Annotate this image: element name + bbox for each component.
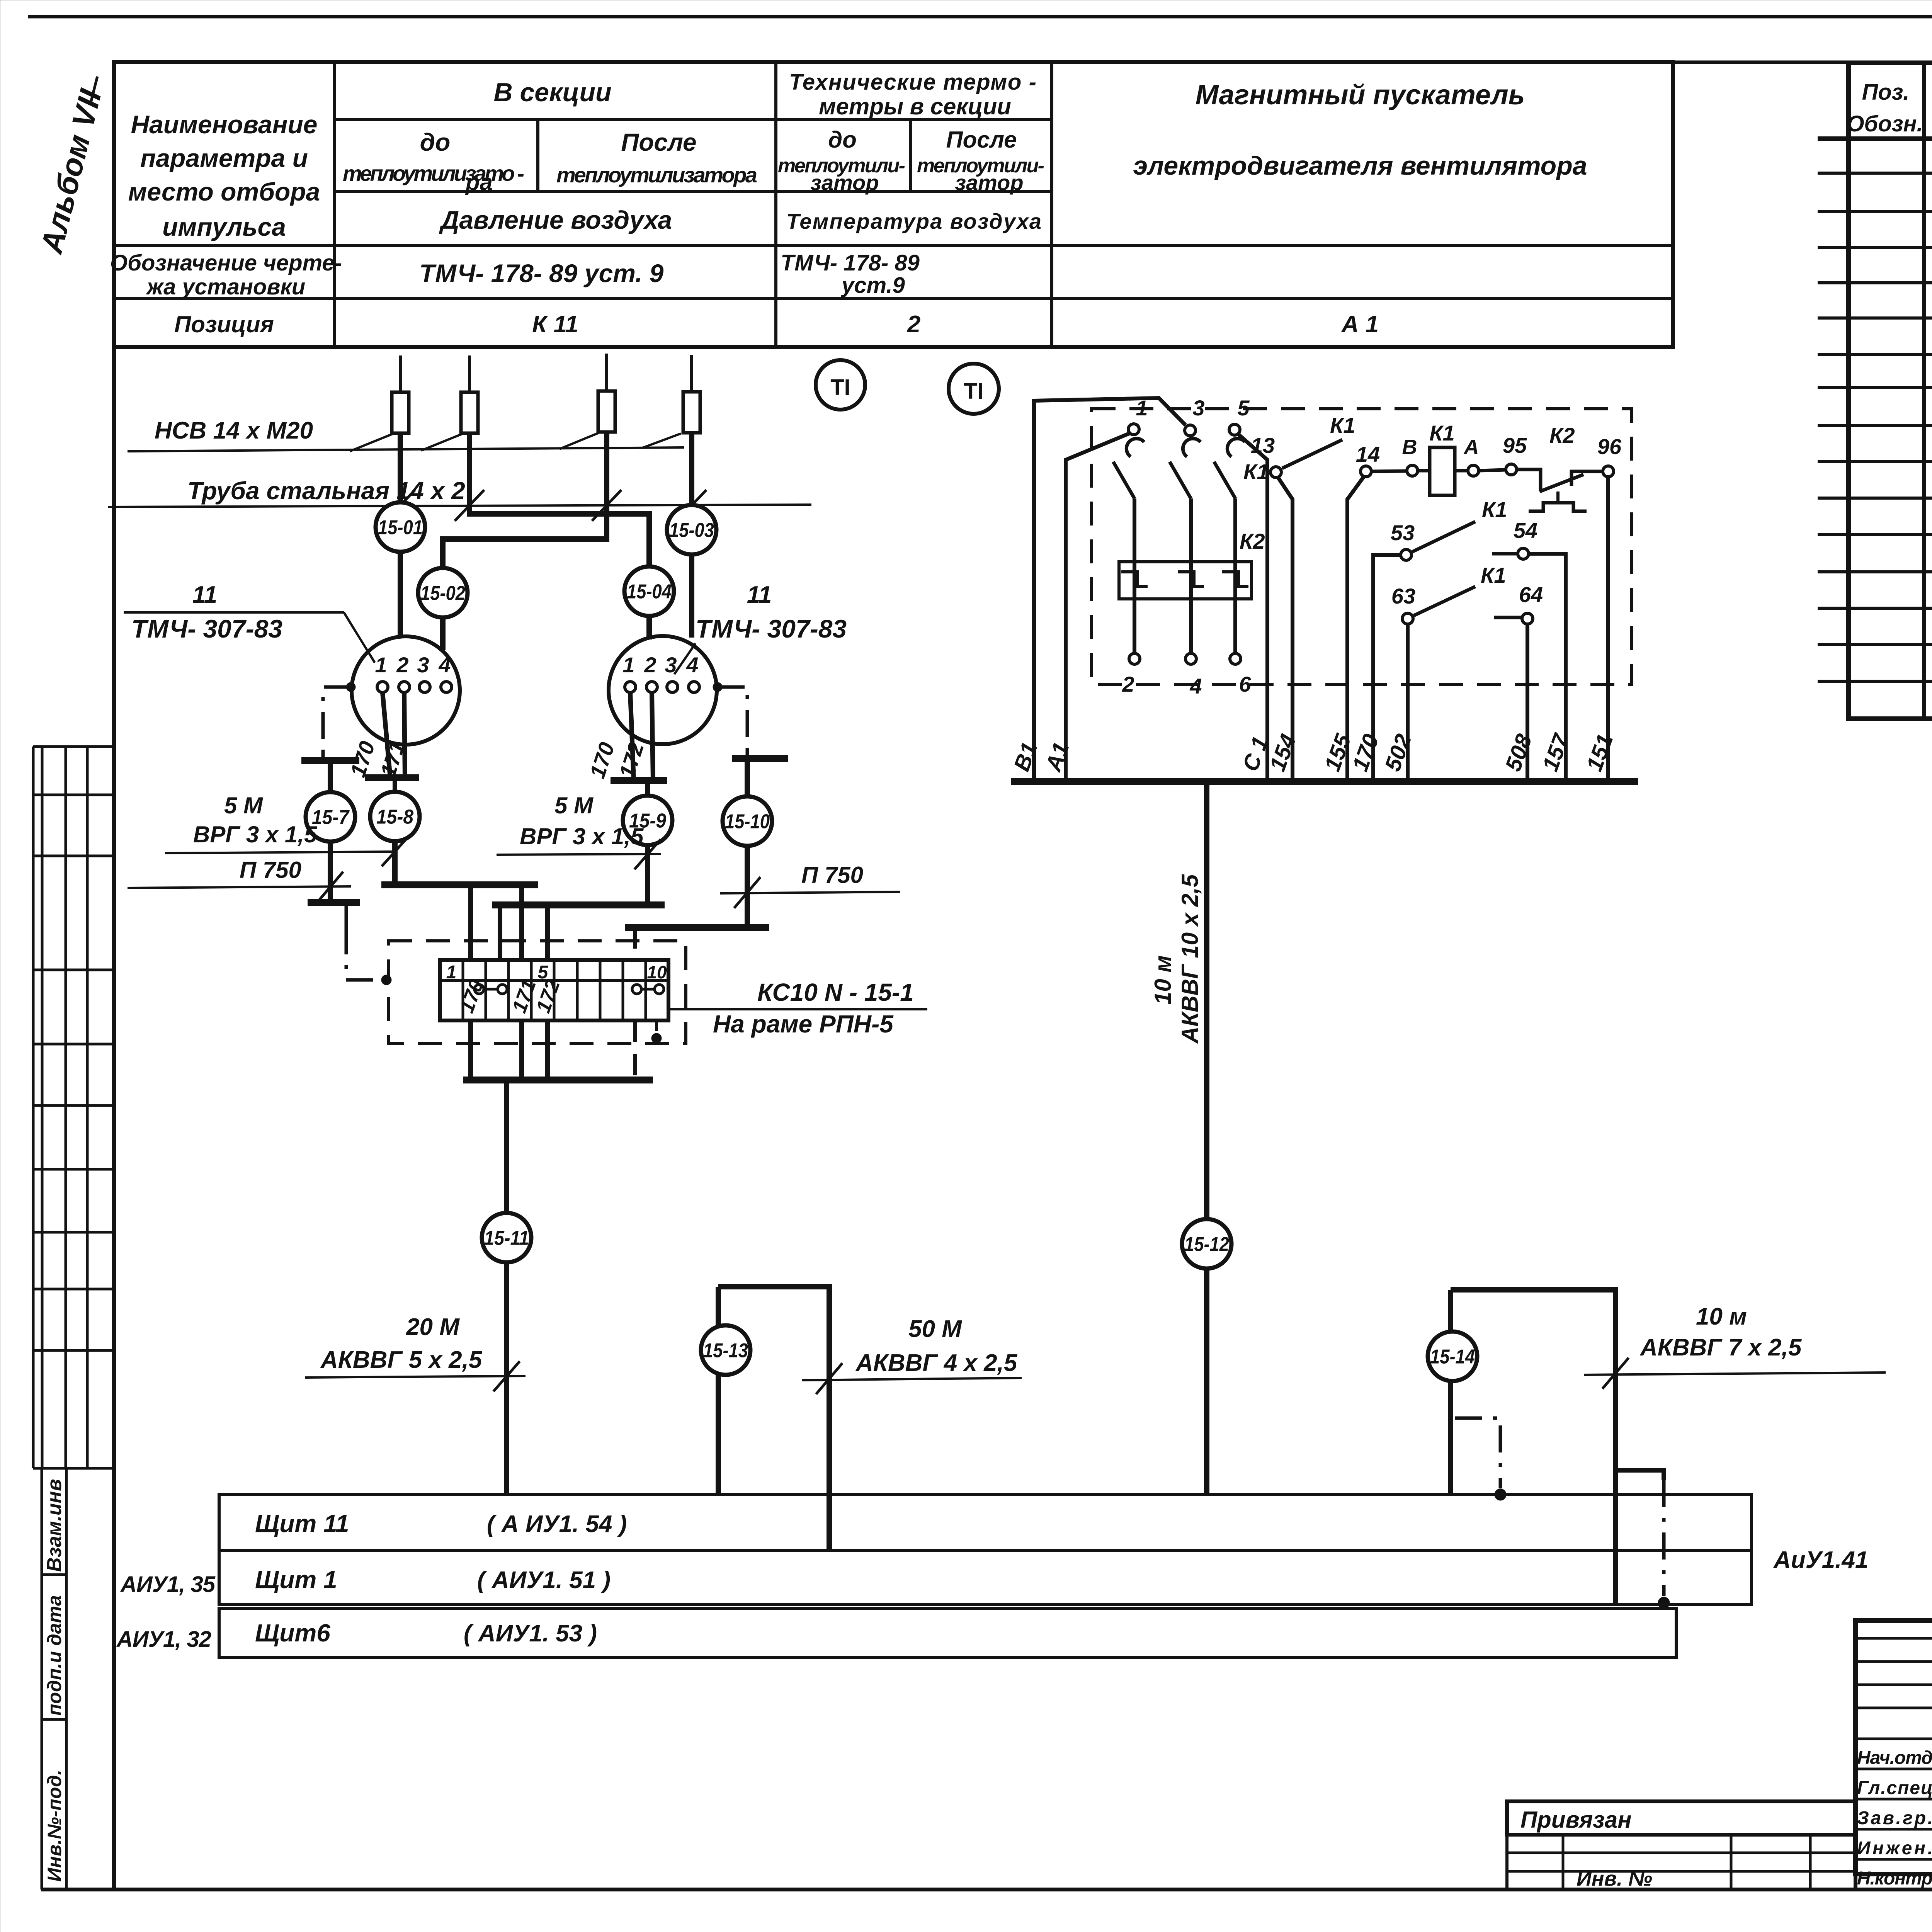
svg-text:2: 2 xyxy=(1122,672,1134,696)
title block left edge down to frame bottom xyxy=(1854,1621,1857,1889)
terminal bus above 15-8 xyxy=(365,774,419,781)
wire 15-02 to sensor edge xyxy=(440,617,446,650)
wire 15-9 down to bus2 xyxy=(645,845,650,905)
svg-text:К1: К1 xyxy=(1330,413,1355,437)
svg-text:13: 13 xyxy=(1251,433,1275,457)
svg-text:ВРГ 3 х 1,5: ВРГ 3 х 1,5 xyxy=(520,823,644,849)
wire line 3 bend to 15-02 xyxy=(443,432,607,568)
starter dashed enclosure xyxy=(1092,409,1632,684)
parts table header bottom line xyxy=(1818,136,1932,141)
svg-text:ТМЧ- 307-83: ТМЧ- 307-83 xyxy=(696,614,847,643)
svg-text:14: 14 xyxy=(1356,442,1380,466)
leader П750 right with hatch at 15-10 wire xyxy=(720,892,900,893)
leader line for Труба стальная xyxy=(108,505,811,507)
jumper right pair in block xyxy=(632,985,641,994)
svg-text:К1: К1 xyxy=(1429,421,1455,445)
parts table column Поз.Обозн. xyxy=(1922,63,1926,719)
instrument 15-9 xyxy=(623,796,672,845)
parameter table row line y=773 xyxy=(114,297,1673,300)
wire 96 to 151 line xyxy=(1606,477,1610,781)
leader ВРГ right with hatch at 15-9 wire xyxy=(497,854,661,855)
wire 13 to 154 line xyxy=(1278,477,1293,781)
svg-text:П 750: П 750 xyxy=(240,857,301,883)
svg-text:Труба стальная 14 х 2: Труба стальная 14 х 2 xyxy=(187,477,465,505)
instrument 15-04 xyxy=(624,566,674,616)
sensor ТМЧ-307-83 left (pos 11) xyxy=(352,636,460,745)
aux contact 64 xyxy=(1522,613,1533,624)
parts table outer frame xyxy=(1849,63,1932,719)
svg-text:3: 3 xyxy=(1192,396,1204,420)
К2 release symbol xyxy=(1556,492,1560,503)
phase wire 3-4 xyxy=(1189,498,1193,564)
terminal 2 circle xyxy=(1129,653,1140,664)
wire drop line 3 top xyxy=(605,354,608,391)
svg-text:50 М: 50 М xyxy=(908,1316,962,1342)
svg-text:На раме РПН-5: На раме РПН-5 xyxy=(713,1010,894,1038)
svg-text:4: 4 xyxy=(1189,674,1202,698)
sensor ТМЧ-307-83 right (pos 11) xyxy=(609,636,717,744)
svg-text:Щит 11: Щит 11 xyxy=(255,1510,349,1537)
svg-text:АКВВГ 7 х 2,5: АКВВГ 7 х 2,5 xyxy=(1639,1334,1802,1361)
svg-text:10 м: 10 м xyxy=(1150,955,1176,1005)
wire А to 95 xyxy=(1479,470,1506,471)
hatch marks on tube leader xyxy=(386,490,415,521)
drop wires from bus2 to terminal block xyxy=(498,905,502,960)
wire 15-03 to sensor xyxy=(689,554,694,638)
wire drop line 1 top xyxy=(399,355,402,392)
wire 15-8 down to bus1 xyxy=(392,841,398,885)
svg-text:Взам.инв: Взам.инв xyxy=(43,1479,66,1572)
wire bus to 15-8 xyxy=(393,778,397,793)
leader ВРГ left with hatch at 15-8 wire xyxy=(165,852,394,853)
parameter table column x=2722 xyxy=(1050,62,1053,347)
svg-text:Привязан: Привязан xyxy=(1520,1807,1631,1833)
wire line 2 bend to 15-04 xyxy=(469,433,649,566)
svg-text:( А ИУ1. 54 ): ( А ИУ1. 54 ) xyxy=(487,1511,627,1537)
leader to right sensor xyxy=(674,643,696,674)
svg-text:до: до xyxy=(420,128,451,156)
svg-text:96: 96 xyxy=(1597,434,1622,459)
svg-text:ТI: ТI xyxy=(830,375,850,400)
wire blade to 64 xyxy=(1494,616,1522,619)
bus1 under 15-8 xyxy=(381,881,538,888)
svg-text:К2: К2 xyxy=(1240,529,1265,553)
instrument 15-8 xyxy=(370,792,420,841)
wire drop line 4 top xyxy=(690,355,693,392)
wire 15-12 to panel bus xyxy=(1204,1267,1209,1495)
svg-text:( АИУ1. 53 ): ( АИУ1. 53 ) xyxy=(464,1620,597,1647)
phase wire 5-6 xyxy=(1233,498,1237,564)
union fitting НСВ on line 4 xyxy=(683,392,700,433)
drop wires from bus1 to terminal block xyxy=(468,885,473,960)
svg-text:Температура воздуха: Температура воздуха xyxy=(786,209,1041,233)
parameter table subcolumn x=1392 xyxy=(536,119,539,192)
svg-text:П 750: П 750 xyxy=(801,862,863,888)
svg-text:А 1: А 1 xyxy=(1341,311,1379,338)
svg-text:15-11: 15-11 xyxy=(484,1227,529,1250)
leader АКВВГ7 with hatch xyxy=(1584,1372,1886,1375)
svg-text:АКВВГ 5 х 2,5: АКВВГ 5 х 2,5 xyxy=(320,1347,483,1373)
phase wire 1-2 xyxy=(1133,498,1136,564)
svg-text:Технические термо -: Технические термо - xyxy=(789,70,1036,95)
svg-text:К 11: К 11 xyxy=(532,311,578,338)
svg-text:ТI: ТI xyxy=(964,379,984,404)
aux contact 13 xyxy=(1270,467,1281,478)
svg-text:54: 54 xyxy=(1514,518,1537,543)
dashed wire below block xyxy=(633,1020,637,1080)
union fitting НСВ on line 2 xyxy=(461,392,478,433)
dashed drop from bus3 to terminal block xyxy=(633,927,637,960)
svg-text:Наименование: Наименование xyxy=(131,110,318,139)
blade К1 13-14 xyxy=(1282,440,1342,468)
aux contact 53 xyxy=(1401,549,1412,560)
svg-text:Обозн.: Обозн. xyxy=(1847,111,1923,136)
coil К1 rectangle xyxy=(1430,447,1455,495)
wire В to coil xyxy=(1418,469,1430,473)
phase wires to terminals 2 4 6 xyxy=(1133,564,1136,653)
terminal block header row line xyxy=(440,979,668,982)
svg-text:15-01: 15-01 xyxy=(378,517,423,539)
wire line 1 to instrument 15-01 xyxy=(398,433,403,502)
ТI instrument circle 2 xyxy=(949,364,999,414)
parameter table column x=866 xyxy=(333,62,336,347)
svg-text:3: 3 xyxy=(417,653,429,677)
leader ticks to fittings xyxy=(350,434,393,451)
terminal 96 circle xyxy=(1603,466,1614,477)
aux contact 14 xyxy=(1361,466,1371,477)
leader line for НСВ fittings xyxy=(128,447,684,451)
svg-text:63: 63 xyxy=(1391,584,1415,608)
parameter table row line y=309 (section header bottom) xyxy=(335,118,1052,121)
svg-text:К1: К1 xyxy=(1482,497,1507,522)
svg-text:15-14: 15-14 xyxy=(1430,1346,1475,1368)
svg-text:15-02: 15-02 xyxy=(420,582,465,605)
mains wire А1 xyxy=(1066,434,1129,781)
instrument 15-13 xyxy=(701,1325,750,1375)
panel box Щит 11 xyxy=(219,1495,1752,1550)
Привязан block xyxy=(1507,1801,1855,1835)
ТI instrument circle 1 xyxy=(816,360,865,410)
main contact blades xyxy=(1113,462,1134,498)
svg-text:А: А xyxy=(1463,435,1479,459)
svg-text:1: 1 xyxy=(622,653,634,677)
Привязан grid xyxy=(1507,1835,1855,1889)
sensor wires 170/171 to bus of 15-8 xyxy=(383,692,390,778)
wire starter bus to 15-12 xyxy=(1204,781,1209,1221)
svg-text:до: до xyxy=(828,127,857,153)
svg-text:10: 10 xyxy=(647,962,667,982)
parameter table outer frame xyxy=(114,62,1673,347)
svg-text:К1: К1 xyxy=(1481,563,1506,587)
svg-text:В: В xyxy=(1402,435,1417,459)
terminal block column dividers xyxy=(462,960,464,1020)
dash-dot branch from 15-14 wire xyxy=(1455,1418,1500,1488)
wire T-bar to 15-10 xyxy=(745,759,750,796)
wire 14 to В xyxy=(1371,471,1407,471)
svg-text:АиУ1.41: АиУ1.41 xyxy=(1773,1547,1868,1573)
blade К1 53-54 xyxy=(1412,522,1475,552)
instrument 15-12 xyxy=(1182,1219,1231,1269)
svg-text:Нач.отд: Нач.отд xyxy=(1857,1748,1932,1768)
leader П750 left with hatch at 15-7 wire xyxy=(128,886,351,888)
terminal В circle xyxy=(1407,465,1418,476)
instrument 15-14 xyxy=(1428,1332,1477,1381)
К2 thermal NC contact xyxy=(1517,469,1541,492)
wire 64 to 508 line xyxy=(1526,624,1529,781)
svg-text:15-8: 15-8 xyxy=(376,806,413,828)
terminal А circle xyxy=(1468,465,1479,476)
left margin strip (bottom section cells) xyxy=(41,1468,43,1889)
parameter table column x=2008 xyxy=(774,62,777,347)
wire drop line 2 top xyxy=(468,355,471,392)
wire T-bar to 15-7 xyxy=(328,760,333,794)
svg-text:Позиция: Позиция xyxy=(174,311,274,337)
wire 54 corner to 157 line xyxy=(1529,554,1566,781)
svg-text:Щит 1: Щит 1 xyxy=(255,1566,337,1594)
step from 15-14 right wire xyxy=(1616,1470,1664,1480)
svg-text:В секции: В секции xyxy=(493,78,611,107)
svg-text:подп.и дата: подп.и дата xyxy=(44,1595,65,1716)
parts table row lines xyxy=(1818,172,1932,175)
wire coil to А xyxy=(1455,469,1468,473)
panel box Щит 6 xyxy=(219,1609,1676,1658)
cable loop 15-13 xyxy=(716,1325,721,1495)
dash-dot capillary from right sensor xyxy=(713,682,722,692)
svg-text:После: После xyxy=(621,128,696,156)
svg-text:1: 1 xyxy=(1136,396,1148,420)
svg-text:Инв.№-под.: Инв.№-под. xyxy=(44,1770,65,1882)
svg-text:АКВВГ 10 х 2,5: АКВВГ 10 х 2,5 xyxy=(1177,874,1203,1044)
panel box Щит 1 xyxy=(219,1550,1752,1605)
contact 3 fixed circle xyxy=(1185,425,1196,436)
terminal 6 circle xyxy=(1230,653,1241,664)
bus3 under 15-10 xyxy=(625,924,769,931)
title block outer frame xyxy=(1855,1621,1932,1874)
wire bus to 15-9 xyxy=(645,781,650,796)
svg-text:уст.9: уст.9 xyxy=(840,273,905,298)
svg-text:Инв. №: Инв. № xyxy=(1577,1867,1652,1890)
svg-text:АКВВГ 4 х 2,5: АКВВГ 4 х 2,5 xyxy=(855,1350,1018,1376)
svg-text:4: 4 xyxy=(438,653,451,677)
wire bus to 15-11 xyxy=(504,1080,509,1211)
wire 53 corner to 170 line xyxy=(1373,555,1401,781)
svg-text:6: 6 xyxy=(1239,672,1251,696)
svg-text:Гл.спец: Гл.спец xyxy=(1857,1778,1932,1798)
parameter table subcolumn x=2356 xyxy=(909,119,912,192)
terminal block КС10 body xyxy=(440,960,668,1020)
instrument 15-10 xyxy=(723,796,772,846)
instrument 15-02 xyxy=(418,568,468,617)
leader АКВВГ5 with hatch xyxy=(305,1376,526,1378)
parameter table row line y=496 xyxy=(335,190,1052,193)
instrument 15-03 xyxy=(667,505,716,554)
instrument 15-11 xyxy=(482,1213,531,1262)
thermal heater elements xyxy=(1121,572,1148,587)
svg-text:ТМЧ- 178- 89 уст. 9: ТМЧ- 178- 89 уст. 9 xyxy=(419,259,664,287)
svg-text:НСВ 14 х М20: НСВ 14 х М20 xyxy=(155,417,313,444)
wire line 4 to instrument 15-03 xyxy=(689,433,694,506)
svg-text:2: 2 xyxy=(644,653,656,677)
svg-text:К2: К2 xyxy=(1549,423,1575,447)
svg-text:2: 2 xyxy=(396,653,408,677)
leader under КС10 label xyxy=(670,1008,927,1010)
thermal relay block body xyxy=(1119,562,1252,599)
terminal 4 circle xyxy=(1185,653,1196,664)
svg-text:затор: затор xyxy=(810,170,879,195)
svg-text:10 м: 10 м xyxy=(1696,1303,1747,1330)
dash-dot down with junction dot xyxy=(1662,1480,1666,1596)
svg-text:АИУ1, 32: АИУ1, 32 xyxy=(116,1627,211,1652)
contact hooks K1 main poles xyxy=(1126,439,1144,457)
leader АКВВГ4 with hatch xyxy=(802,1378,1022,1380)
terminal 95 circle xyxy=(1506,464,1517,475)
horizontal line under sheet-number row xyxy=(114,61,1932,64)
svg-text:15-7: 15-7 xyxy=(312,806,350,829)
svg-text:затор: затор xyxy=(955,170,1023,195)
svg-text:95: 95 xyxy=(1503,433,1527,457)
svg-text:11: 11 xyxy=(747,582,772,608)
aux contact 63 xyxy=(1402,613,1413,624)
contact 1 fixed circle xyxy=(1128,424,1139,435)
svg-text:20 М: 20 М xyxy=(406,1314,460,1340)
svg-text:Поз.: Поз. xyxy=(1862,80,1910,105)
svg-text:Обозначение черте-: Обозначение черте- xyxy=(110,250,342,276)
mains wire В1 xyxy=(1034,398,1185,781)
wire blade to 54 xyxy=(1492,552,1518,556)
svg-text:параметра и: параметра и xyxy=(140,144,308,172)
parameter table row line y=635 xyxy=(114,244,1673,247)
jumper left pair in block xyxy=(474,985,484,994)
bottom bus under terminal block xyxy=(463,1077,653,1083)
wire 63 to 502 line xyxy=(1406,624,1410,781)
wire 15-7 down to lower T-bar xyxy=(328,842,333,903)
svg-text:1: 1 xyxy=(446,962,457,983)
svg-text:Щит6: Щит6 xyxy=(255,1619,330,1647)
T-bar above 15-10 xyxy=(732,755,788,762)
bus2 under 15-9 xyxy=(492,901,665,908)
instrument 15-7 xyxy=(306,792,355,842)
svg-text:1: 1 xyxy=(375,653,387,677)
wires below terminal block to bottom bus xyxy=(468,1020,473,1080)
svg-text:15-04: 15-04 xyxy=(627,581,672,603)
svg-text:11: 11 xyxy=(192,582,217,608)
dashed enclosure На раме РПН-5 xyxy=(388,941,686,1043)
svg-text:После: После xyxy=(946,127,1017,153)
svg-text:64: 64 xyxy=(1519,582,1543,607)
terminal bus above 15-9 xyxy=(611,777,667,784)
svg-text:место отбора: место отбора xyxy=(128,177,320,206)
svg-text:К1: К1 xyxy=(1243,459,1269,484)
sensor wires 170/172 to bus of 15-9 xyxy=(630,692,634,781)
svg-text:жа установки: жа установки xyxy=(146,274,305,299)
union fitting НСВ on line 3 xyxy=(598,391,615,432)
dash-dot stub with terminal dot below block xyxy=(655,1020,658,1032)
lower T-bar of 15-7 xyxy=(308,899,360,906)
svg-text:ра: ра xyxy=(465,169,493,195)
svg-text:теплоутилизато -: теплоутилизато - xyxy=(343,161,524,185)
svg-text:ТМЧ- 178- 89: ТМЧ- 178- 89 xyxy=(781,250,920,276)
starter bottom bus xyxy=(1011,778,1638,785)
page top border line xyxy=(28,15,1932,19)
svg-text:ВРГ 3 х 1,5: ВРГ 3 х 1,5 xyxy=(193,821,318,847)
dash-dot capillary from left sensor xyxy=(346,682,355,692)
wire 15-11 to panel bus xyxy=(504,1264,509,1495)
svg-text:ТМЧ- 307-83: ТМЧ- 307-83 xyxy=(131,614,282,643)
svg-text:теплоутилизатора: теплоутилизатора xyxy=(556,163,757,187)
svg-text:метры в секции: метры в секции xyxy=(819,94,1011,119)
aux contact 54 xyxy=(1518,548,1529,559)
svg-text:15-13: 15-13 xyxy=(703,1340,748,1362)
svg-text:15-12: 15-12 xyxy=(1184,1233,1229,1256)
svg-text:15-10: 15-10 xyxy=(725,811,770,833)
svg-text:Н.контр: Н.контр xyxy=(1857,1868,1932,1889)
left margin strip (top section cells) xyxy=(33,745,112,748)
svg-text:АИУ1, 35: АИУ1, 35 xyxy=(120,1572,216,1597)
svg-text:Магнитный пускатель: Магнитный пускатель xyxy=(1196,80,1525,111)
leader to left sensor xyxy=(124,611,344,614)
signature area row lines xyxy=(1855,1637,1932,1640)
wire 15-01 to sensor xyxy=(398,552,403,638)
svg-text:( АИУ1. 51 ): ( АИУ1. 51 ) xyxy=(477,1567,611,1594)
main frame bottom border xyxy=(41,1888,1932,1891)
cable loop 15-14 xyxy=(1448,1381,1453,1495)
wire С1 from pole 5 xyxy=(1238,434,1267,781)
svg-text:электродвигателя вентилятора: электродвигателя вентилятора xyxy=(1133,151,1587,180)
svg-text:5 М: 5 М xyxy=(554,793,594,818)
svg-text:КС10 N - 15-1: КС10 N - 15-1 xyxy=(757,978,914,1006)
T-bar above 15-7 xyxy=(301,757,359,764)
svg-text:импульса: импульса xyxy=(162,213,286,241)
svg-text:5: 5 xyxy=(1237,396,1250,420)
instrument 15-01 xyxy=(376,502,425,552)
union fitting НСВ on line 1 xyxy=(392,392,409,433)
contact 5 fixed circle xyxy=(1229,424,1240,435)
svg-text:5 М: 5 М xyxy=(224,793,264,818)
svg-text:Инжен.: Инжен. xyxy=(1857,1838,1932,1859)
svg-text:Давление воздуха: Давление воздуха xyxy=(439,206,672,234)
wire 15-10 down to bus3 xyxy=(745,846,750,927)
dash-dot from 15-7 bar to junction box xyxy=(345,903,348,927)
wire 15-04 to sensor edge xyxy=(646,616,652,639)
svg-text:2: 2 xyxy=(907,311,920,338)
svg-text:15-03: 15-03 xyxy=(669,519,714,542)
main frame left border xyxy=(112,62,116,1889)
svg-text:53: 53 xyxy=(1391,520,1415,545)
blade К1 63-64 xyxy=(1414,587,1475,616)
wire 14 to 155 line xyxy=(1347,476,1364,781)
